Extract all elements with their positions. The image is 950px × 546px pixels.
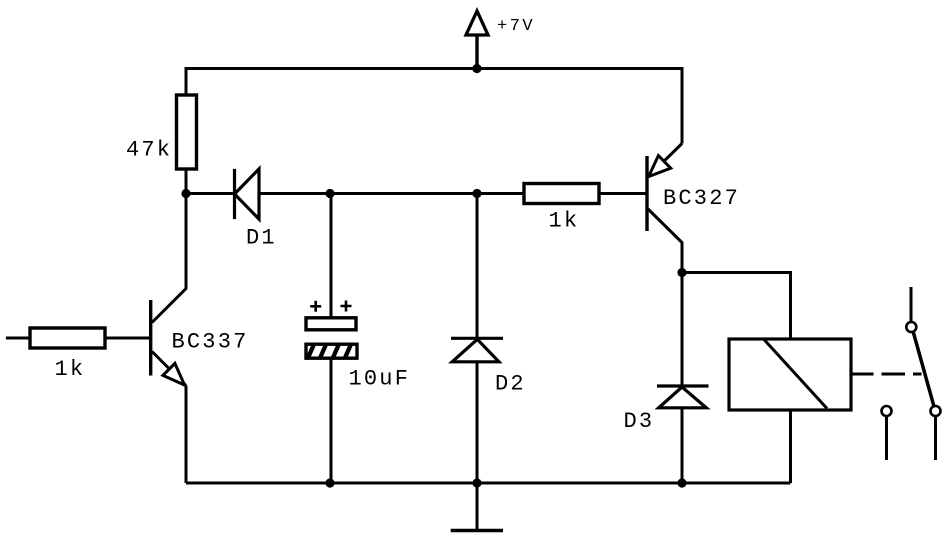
wire: D2 anode to bottom rail (476, 362, 479, 483)
wire: node A to D1 cathode (186, 192, 235, 195)
svg-text:10uF: 10uF (349, 367, 411, 392)
node D junction (BC327 collector / D3 / relay) (677, 268, 686, 277)
wire: node D down to D3 cathode (681, 273, 684, 387)
wire: node B down to capacitor top plate (330, 194, 333, 319)
svg-text:D3: D3 (624, 409, 655, 434)
wire: input stub at left edge (6, 337, 30, 340)
wire: D3 anode to bottom rail (681, 408, 684, 483)
node A junction (47k / D1 / BC337 collector) (181, 189, 190, 198)
wire: capacitor bottom to bottom rail (330, 358, 333, 483)
wire: node C to 1k resistor (477, 192, 524, 195)
svg-text:47k: 47k (126, 138, 172, 163)
node C junction (D2 / 1k) (472, 189, 481, 198)
node junction bottom rail / C1 (325, 478, 334, 487)
diode D1 (235, 169, 260, 219)
wire: D1 anode to node B (259, 192, 330, 195)
wire: BC337 emitter down to bottom rail (185, 386, 188, 484)
wire: bottom rail (186, 482, 791, 485)
power symbol +7V arrow (466, 11, 488, 69)
node junction on top rail at +7V (472, 64, 481, 73)
svg-text:1k: 1k (549, 208, 580, 233)
diode D3 (657, 386, 709, 408)
relay K1 coil box (729, 339, 851, 410)
wire: 47k bottom to node A (185, 169, 188, 194)
diode D2 (zener) (451, 338, 503, 362)
switch SW1 (relay contact) (882, 287, 941, 460)
wire: 1k to BC327 base (599, 192, 647, 195)
node junction bottom rail / D3 (677, 478, 686, 487)
wire: node C down to D2 cathode (476, 194, 479, 339)
node junction bottom rail / D2 / ground (472, 478, 481, 487)
resistor 47k (177, 95, 197, 169)
wire: relay actuator dashed link to switch (851, 373, 922, 376)
wire: top rail from 47k top over to BC327 emitter drop (186, 69, 682, 144)
svg-text:D1: D1 (246, 226, 277, 251)
ground symbol (451, 483, 503, 531)
transistor Q2 BC327 (PNP) (647, 144, 682, 273)
svg-text:1k: 1k (55, 357, 86, 382)
svg-text:+7V: +7V (497, 17, 535, 36)
transistor Q1 BC337 (NPN) (151, 194, 186, 386)
svg-text:BC327: BC327 (663, 186, 740, 211)
node B junction (D1 / C1 / wire) (325, 189, 334, 198)
resistor 1k (base of BC327) (524, 184, 599, 204)
wire: node B to node C (330, 192, 477, 195)
svg-text:D2: D2 (495, 372, 526, 397)
capacitor C1 10uF (electrolytic) (306, 301, 357, 359)
wire: 1k to BC337 base (105, 337, 151, 340)
wire: relay bottom pin to bottom rail (789, 410, 792, 483)
resistor 1k (base of BC337) (30, 328, 105, 348)
wire: node D to relay top pin (682, 273, 791, 340)
svg-text:BC337: BC337 (172, 330, 249, 355)
